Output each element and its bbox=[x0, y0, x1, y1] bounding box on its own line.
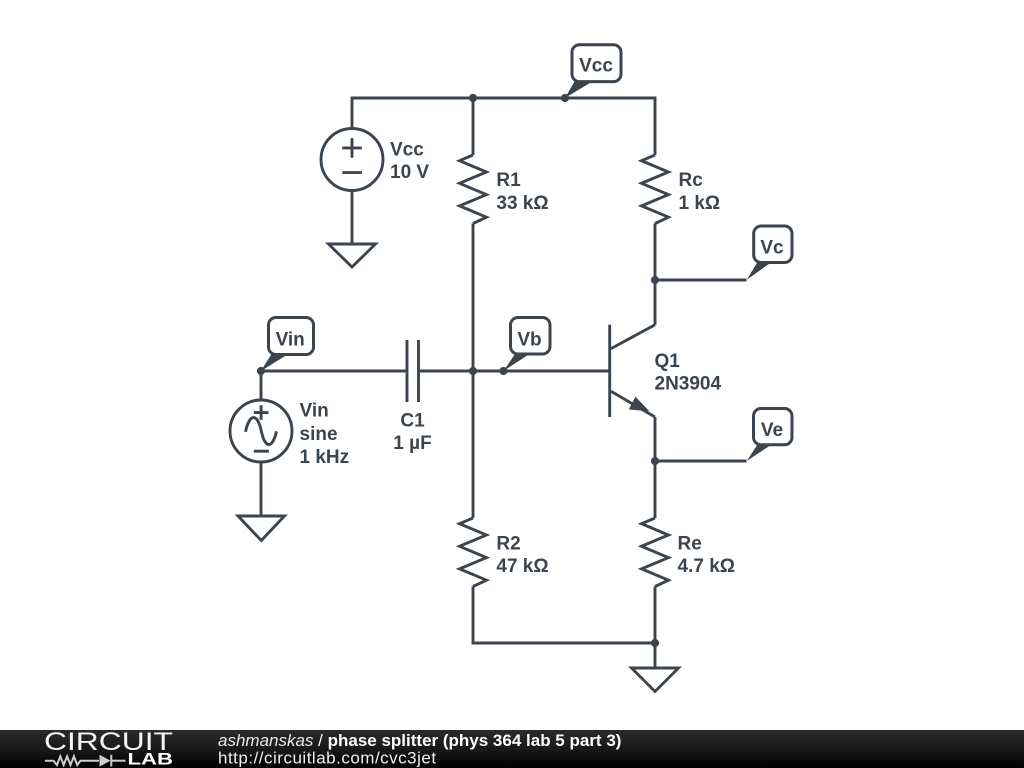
wire Ve node tap bbox=[655, 460, 747, 463]
svg-text:R2: R2 bbox=[496, 533, 520, 554]
node Vin bbox=[257, 367, 265, 375]
svg-text:Re: Re bbox=[678, 533, 702, 554]
svg-text:Vc: Vc bbox=[760, 238, 784, 259]
ground (below V1) bbox=[329, 244, 376, 267]
wire mid junction down to R2 top bbox=[472, 371, 475, 518]
svg-text:1 kHz: 1 kHz bbox=[300, 447, 350, 468]
svg-text:http://circuitlab.com/cvc3jet: http://circuitlab.com/cvc3jet bbox=[218, 749, 437, 768]
wire V1 bottom to ground bbox=[351, 191, 354, 245]
wire Vc node tap bbox=[655, 279, 747, 282]
node Vcc tap bbox=[561, 94, 569, 102]
svg-text:R1: R1 bbox=[496, 170, 521, 191]
svg-text:47 kΩ: 47 kΩ bbox=[496, 556, 548, 577]
voltage source V1 Vcc bbox=[321, 129, 383, 191]
svg-text:ashmanskas / phase splitter (p: ashmanskas / phase splitter (phys 364 la… bbox=[218, 731, 621, 750]
svg-text:LAB: LAB bbox=[128, 750, 174, 768]
flag Vcc bbox=[565, 45, 621, 98]
wire C1 right plate to mid junction and on to Q1 base bbox=[419, 370, 609, 373]
node Vb tap bbox=[499, 367, 507, 375]
resistor R1 bbox=[460, 155, 487, 224]
svg-text:33 kΩ: 33 kΩ bbox=[496, 193, 548, 214]
flag Ve bbox=[747, 409, 792, 462]
footer bar bbox=[0, 730, 1024, 768]
wire top rail left: Vcc source to junction bbox=[352, 98, 473, 129]
svg-text:1 µF: 1 µF bbox=[393, 433, 431, 454]
resistor Rc bbox=[642, 155, 669, 224]
svg-text:Vb: Vb bbox=[517, 330, 541, 351]
svg-text:Vin: Vin bbox=[276, 329, 305, 350]
node junction at top rail / R1 bbox=[469, 94, 477, 102]
node bottom junction bbox=[651, 639, 659, 647]
ground (below V2) bbox=[238, 516, 285, 541]
wire R1 bottom to mid junction bbox=[472, 224, 475, 372]
svg-text:Vin: Vin bbox=[300, 401, 329, 422]
wire Q1 emitter to Ve node bbox=[654, 417, 657, 461]
node Vc bbox=[651, 276, 659, 284]
flag Vin bbox=[261, 318, 314, 372]
svg-text:Vcc: Vcc bbox=[579, 55, 613, 76]
svg-text:C1: C1 bbox=[400, 411, 425, 432]
node Ve bbox=[651, 457, 659, 465]
svg-text:2N3904: 2N3904 bbox=[655, 373, 722, 394]
wire Re bottom to bottom junction bbox=[654, 587, 657, 644]
svg-text:Rc: Rc bbox=[679, 170, 704, 191]
ground (bottom) bbox=[632, 668, 679, 692]
svg-text:1 kΩ: 1 kΩ bbox=[679, 193, 721, 214]
flag Vc bbox=[747, 226, 792, 280]
svg-text:10 V: 10 V bbox=[390, 162, 429, 183]
resistor Re bbox=[642, 518, 669, 587]
capacitor C1 bbox=[407, 340, 419, 402]
svg-text:Ve: Ve bbox=[761, 420, 783, 441]
voltage source V2 Vin sine bbox=[230, 400, 292, 462]
flag Vb bbox=[504, 318, 551, 372]
node mid junction bbox=[469, 367, 477, 375]
svg-text:4.7 kΩ: 4.7 kΩ bbox=[678, 556, 736, 577]
svg-text:Vcc: Vcc bbox=[390, 140, 424, 161]
wire junction to R1 top bbox=[472, 98, 475, 155]
wire Rc bottom through Vc node to Q1 collector bbox=[654, 224, 657, 325]
wire bottom junction to ground bbox=[654, 643, 657, 668]
wire Vin node to C1 left plate bbox=[261, 370, 407, 373]
svg-text:sine: sine bbox=[300, 424, 338, 445]
svg-text:Q1: Q1 bbox=[655, 351, 681, 372]
wire V2 bottom to ground bbox=[260, 462, 263, 516]
wire Vin node to V2 top bbox=[260, 371, 263, 400]
wire Ve node to Re top bbox=[654, 461, 657, 518]
wire top rail right: junction to Rc top bbox=[473, 98, 655, 155]
transistor Q1 bbox=[610, 325, 655, 417]
logo wire with resistor and diode bbox=[45, 755, 126, 767]
wire R2 bottom to bottom junction bbox=[473, 587, 655, 644]
resistor R2 bbox=[460, 518, 487, 587]
